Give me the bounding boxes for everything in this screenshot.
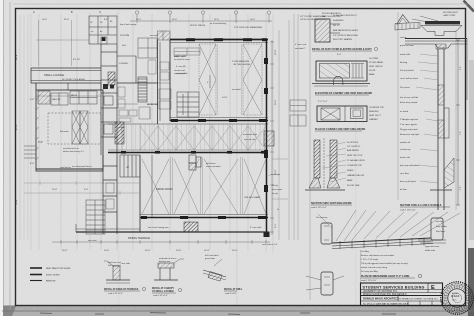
- svg-text:line of roof canopy: line of roof canopy: [120, 24, 136, 26]
- svg-text:16'-0": 16'-0": [136, 19, 141, 21]
- svg-text:2x: 2x: [277, 209, 279, 211]
- svg-text:NO WORK THIS AREA: NO WORK THIS AREA: [62, 78, 85, 81]
- right dimension strip of plan: [270, 40, 277, 235]
- svg-text:16'-0": 16'-0": [64, 19, 69, 21]
- svg-text:ELECTRIC HEATER: ELECTRIC HEATER: [333, 38, 353, 41]
- svg-text:DETAIL AT CANOPY: DETAIL AT CANOPY: [152, 287, 174, 290]
- svg-text:1/2" GYPROC: 1/2" GYPROC: [347, 146, 361, 148]
- svg-text:conc slab: conc slab: [121, 263, 131, 265]
- scattered leader notes on plan: [60, 22, 261, 229]
- small boxes right of plan: [290, 100, 306, 126]
- svg-text:WALK IN: WALK IN: [52, 98, 61, 101]
- svg-text:tile clg: tile clg: [272, 192, 278, 195]
- svg-text:ASB PAPER: ASB PAPER: [347, 149, 359, 152]
- svg-text:underside of stucco: underside of stucco: [159, 257, 177, 260]
- svg-text:40w lamp: 40w lamp: [436, 231, 446, 233]
- svg-text:TO BE REMOVED: TO BE REMOVED: [232, 61, 250, 63]
- connecting walls lounge->wing: [36, 83, 101, 90]
- extension line to title block: [360, 250, 362, 283]
- svg-text:FLASHING: FLASHING: [333, 19, 344, 22]
- svg-text:eggcrate louvre: eggcrate louvre: [425, 245, 440, 248]
- third bottom detail: [203, 254, 243, 295]
- wall column blobs: [171, 38, 268, 122]
- svg-text:conc walk at 1'-0": conc walk at 1'-0": [262, 243, 278, 246]
- svg-text:2'-2" 2'-4": 2'-2" 2'-4": [318, 101, 328, 103]
- svg-text:16'-0": 16'-0": [62, 250, 68, 252]
- svg-text:flashing over: flashing over: [159, 261, 171, 263]
- svg-text:fluoresc strip fixture cont ro: fluoresc strip fixture cont row outlets: [361, 254, 394, 257]
- terrace edge detail: [104, 261, 146, 295]
- architect seal: [441, 282, 473, 314]
- svg-text:3'-9": 3'-9": [38, 141, 43, 144]
- rails: [332, 238, 431, 243]
- svg-text:2x4 STUDS: 2x4 STUDS: [347, 142, 359, 144]
- top fixture row: [38, 91, 97, 105]
- svg-text:8'-0": 8'-0": [104, 19, 108, 21]
- svg-text:SC 1/8"=1'-0" DATE MAY 64 D: SC 1/8"=1'-0" DATE MAY 64 DRAWN GW JOB E: [363, 302, 409, 305]
- ticks: [340, 238, 424, 250]
- svg-text:DINING FLOOR PLAN FIN. 2N: DINING FLOOR PLAN FIN. 2ND DETAILS: [363, 293, 407, 296]
- svg-text:SHELVES: SHELVES: [369, 111, 379, 113]
- svg-text:22 GA GALV IRON: 22 GA GALV IRON: [347, 159, 365, 162]
- upper kitchen rooms (left of dining hall): [160, 40, 200, 122]
- svg-text:SMALL LOUNGE: SMALL LOUNGE: [44, 73, 64, 77]
- svg-text:16'-0": 16'-0": [176, 250, 182, 252]
- svg-text:gravel to beam: gravel to beam: [400, 44, 414, 47]
- svg-text:COUNTER TOP: COUNTER TOP: [369, 107, 385, 109]
- svg-text:scale 1 1/2"=1'-0": scale 1 1/2"=1'-0": [400, 210, 416, 212]
- svg-text:STOR RM: STOR RM: [120, 35, 130, 37]
- svg-text:6x6 posts: 6x6 posts: [60, 130, 69, 133]
- svg-text:12'-0": 12'-0": [275, 49, 277, 55]
- svg-text:scale 3"=1'-0": scale 3"=1'-0": [225, 293, 237, 295]
- top dimension string: [33, 11, 272, 23]
- svg-text:DETAIL AT SMLL: DETAIL AT SMLL: [224, 288, 243, 291]
- svg-text:WOOD TRUSS: WOOD TRUSS: [190, 25, 206, 27]
- svg-text:line of conc wall fdn: line of conc wall fdn: [400, 97, 419, 99]
- svg-text:ON THIS CEILING: ON THIS CEILING: [233, 64, 251, 66]
- svg-text:2x6 fascia brd: 2x6 fascia brd: [108, 265, 120, 267]
- svg-text:PLYWD PANEL: PLYWD PANEL: [369, 61, 384, 64]
- svg-text:over see det: over see det: [244, 138, 255, 141]
- svg-text:asbest cem trim screw fixing: asbest cem trim screw fixing: [361, 266, 388, 269]
- lockers cluster below band: [189, 155, 201, 170]
- svg-text:DONALD WAGG ARCHITECT: DONALD WAGG ARCHITECT: [363, 296, 399, 300]
- svg-text:TOP OF ROOF SHEATHING: TOP OF ROOF SHEATHING: [234, 26, 262, 29]
- lower dining hall: [140, 121, 270, 237]
- svg-text:REMOVE: REMOVE: [46, 281, 56, 283]
- svg-text:conc'l wall as found: conc'l wall as found: [400, 78, 419, 80]
- faint fold line: [236, 9, 238, 305]
- svg-text:16'-0": 16'-0": [42, 19, 47, 21]
- svg-text:14'-0": 14'-0": [222, 97, 228, 99]
- svg-text:9'-2": 9'-2": [460, 66, 462, 70]
- svg-text:stair exist: stair exist: [88, 239, 97, 242]
- svg-text:9'-8": 9'-8": [30, 99, 35, 101]
- svg-text:VENT DUCT: VENT DUCT: [369, 115, 382, 117]
- svg-text:counter: counter: [118, 126, 125, 129]
- svg-text:24'-0": 24'-0": [15, 124, 18, 130]
- svg-text:below keep sloped: below keep sloped: [400, 102, 418, 104]
- svg-text:scale 1 1/2"=1'-0": scale 1 1/2"=1'-0": [153, 295, 168, 297]
- svg-text:window sill: window sill: [400, 142, 410, 144]
- svg-text:1"air space gyproc: 1"air space gyproc: [400, 123, 417, 126]
- vent enclosure section: [305, 138, 365, 209]
- svg-text:no work this room: no work this room: [174, 58, 190, 61]
- lower lamp: [321, 272, 333, 295]
- cabinet plan: [315, 101, 385, 131]
- svg-text:mezz light: mezz light: [271, 173, 280, 176]
- svg-text:16'-0": 16'-0": [250, 19, 255, 21]
- column grid (light verticals): [20, 12, 273, 252]
- svg-text:1x4 TRIM: 1x4 TRIM: [369, 58, 378, 60]
- svg-text:new wall: new wall: [150, 35, 158, 37]
- svg-text:UNIVERSITY OF VICTORIA, B.: UNIVERSITY OF VICTORIA, B.C.: [363, 290, 398, 293]
- svg-text:scale 1 1/2"=1'-0": scale 1 1/2"=1'-0": [361, 280, 377, 282]
- svg-text:roof jst: roof jst: [400, 36, 407, 39]
- svg-text:4'-0": 4'-0": [337, 54, 341, 56]
- svg-text:16'-0": 16'-0": [275, 99, 277, 105]
- svg-text:22'-6": 22'-6": [52, 189, 58, 191]
- svg-text:4x10 roof rafter: 4x10 roof rafter: [205, 254, 219, 257]
- stairs: [177, 92, 199, 117]
- svg-text:E: E: [431, 285, 435, 291]
- svg-text:mtl lockers: mtl lockers: [206, 162, 216, 165]
- svg-text:base sq fin lbynd: base sq fin lbynd: [400, 181, 416, 183]
- bottom scan band: [0, 305, 474, 316]
- svg-text:DOOR: DOOR: [369, 70, 376, 72]
- svg-text:AT SMALL LOUNGE: AT SMALL LOUNGE: [152, 290, 174, 293]
- svg-text:DINING TERRACE: DINING TERRACE: [128, 236, 150, 240]
- kitchen extra fixtures: [117, 60, 170, 122]
- svg-text:EXIST WORK: EXIST WORK: [46, 275, 60, 277]
- svg-text:NO. 12: NO. 12: [333, 25, 340, 27]
- svg-text:remove partit: remove partit: [176, 72, 188, 75]
- svg-text:BASE: BASE: [369, 73, 375, 76]
- svg-text:7'-6": 7'-6": [460, 131, 462, 135]
- svg-text:6'-2 1/2": 6'-2 1/2": [73, 59, 81, 61]
- corridor duct hatch bar: [115, 122, 124, 144]
- svg-text:STUDENT SERVICES BUILDING: STUDENT SERVICES BUILDING: [363, 285, 425, 289]
- two narrow shelving strips: [72, 111, 88, 144]
- svg-text:CANT STRIP: CANT STRIP: [443, 14, 456, 17]
- svg-text:flashing: flashing: [400, 62, 408, 64]
- svg-text:B.C.: B.C.: [453, 300, 457, 302]
- svg-text:16'-0": 16'-0": [232, 250, 238, 252]
- legend: [30, 267, 71, 283]
- skylight strips with X: [199, 44, 262, 115]
- svg-text:flash here and: flash here and: [108, 262, 121, 264]
- left wing (kitchen west): [24, 90, 103, 171]
- svg-text:no ceiling work this rm: no ceiling work this rm: [72, 165, 92, 168]
- svg-text:16'-0": 16'-0": [145, 250, 151, 252]
- svg-text:W gyps and panels: W gyps and panels: [400, 129, 418, 131]
- svg-text:NEW PARTITION WORK: NEW PARTITION WORK: [46, 267, 71, 270]
- small room fixtures: [118, 87, 171, 119]
- svg-text:2x4 blkg: 2x4 blkg: [361, 251, 370, 253]
- title block: [361, 283, 443, 306]
- svg-text:DETAIL AT EDGE OF TERRACE: DETAIL AT EDGE OF TERRACE: [104, 288, 139, 291]
- svg-text:MECH: MECH: [71, 95, 77, 97]
- svg-text:base top and bottom: base top and bottom: [400, 164, 419, 167]
- svg-text:SECTION THRU A-C AND C-W WALLS: SECTION THRU A-C AND C-W WALLS: [400, 204, 442, 207]
- svg-text:4" conc curb: 4" conc curb: [295, 44, 307, 46]
- svg-text:BAKE SHOP: BAKE SHOP: [174, 55, 187, 58]
- svg-text:2"fiberglas rigid insl: 2"fiberglas rigid insl: [400, 118, 418, 121]
- svg-text:as found: as found: [400, 111, 409, 113]
- small detail below wall section: [418, 220, 447, 252]
- svg-text:ROOFING FELT: ROOFING FELT: [443, 12, 459, 14]
- svg-text:exist kitchen: exist kitchen: [60, 166, 71, 169]
- svg-text:scale 1 1/2"=1'-0": scale 1 1/2"=1'-0": [108, 293, 123, 295]
- svg-text:counter and: counter and: [174, 69, 185, 72]
- svg-text:PLAN OF MEZZANINE LIGHT 9: PLAN OF MEZZANINE LIGHT 9'-0" LONG: [361, 275, 410, 278]
- entry vestibule block top: [89, 16, 117, 44]
- svg-text:16'-0": 16'-0": [204, 250, 210, 252]
- svg-text:8'-0": 8'-0": [30, 163, 35, 165]
- svg-text:PLAN OF CABINET AND VENT ENCLO: PLAN OF CABINET AND VENT ENCLOSURE: [315, 128, 366, 131]
- duct over heater detail: [312, 14, 378, 51]
- svg-text:BASE: BASE: [347, 179, 353, 182]
- svg-text:7/8 sq mtl eggcrate louvre baf: 7/8 sq mtl eggcrate louvre baffled (see …: [361, 262, 409, 265]
- svg-text:see detail: see detail: [232, 88, 241, 91]
- svg-text:fluorescent strip light: fluorescent strip light: [400, 133, 419, 136]
- svg-text:LOUNGE: LOUNGE: [119, 63, 128, 65]
- svg-text:16'-0": 16'-0": [214, 19, 219, 21]
- texts right margin of plan: [262, 173, 283, 246]
- left notes: [400, 36, 438, 191]
- svg-text:R.A.I.C: R.A.I.C: [452, 295, 460, 298]
- separator verticals right of plan: [279, 12, 456, 300]
- svg-text:635 HUMBOLDT STREET, VICTORIA,: 635 HUMBOLDT STREET, VICTORIA, B.C.: [398, 297, 439, 300]
- left edge strip: [0, 0, 3, 316]
- svg-text:SHELF: SHELF: [347, 170, 354, 172]
- canopy detail: [152, 257, 184, 297]
- svg-text:VENT GRILLE: VENT GRILLE: [369, 66, 383, 68]
- svg-text:see detail 7: see detail 7: [295, 47, 306, 50]
- notes: [361, 251, 409, 273]
- svg-text:DETAIL OF DUCT OVER ELECTRIC H: DETAIL OF DUCT OVER ELECTRIC HEATER & DU…: [312, 48, 372, 51]
- cabinet elevation: [312, 54, 384, 95]
- svg-text:heater cab: heater cab: [400, 156, 411, 159]
- svg-text:16'-0": 16'-0": [104, 250, 110, 252]
- top dim tiny labels: [42, 19, 255, 21]
- svg-text:4" conc walk: 4" conc walk: [250, 227, 261, 229]
- small stair detail lower corridor: [86, 200, 105, 242]
- svg-text:baffle ends: baffle ends: [425, 250, 435, 252]
- small lounge band: [31, 68, 101, 90]
- corridor lower segment: [103, 155, 117, 234]
- svg-text:CABINET BELOW: CABINET BELOW: [347, 174, 364, 177]
- svg-text:kitchen and servery 1:1: kitchen and servery 1:1: [63, 150, 85, 153]
- left dimension texts: [15, 54, 35, 205]
- office boxes top: [138, 31, 170, 58]
- svg-text:ARCHT: ARCHT: [452, 292, 459, 295]
- misc left leaders: [36, 20, 89, 66]
- leader fan: [318, 210, 460, 241]
- svg-text:line of roof canopy over: line of roof canopy over: [148, 227, 169, 229]
- stair ladder dark cluster: [138, 77, 147, 102]
- svg-text:counter top: counter top: [400, 148, 411, 151]
- svg-text:mtl clips: mtl clips: [436, 220, 444, 223]
- svg-text:UP: UP: [126, 167, 130, 169]
- svg-text:scale 1 1/2"=1'-0": scale 1 1/2"=1'-0": [311, 207, 327, 209]
- svg-text:3'-0": 3'-0": [460, 186, 462, 190]
- terrace edge line: [76, 222, 268, 240]
- wall hatch ticks left: [36, 97, 39, 160]
- svg-text:9'-0": 9'-0": [275, 223, 277, 228]
- svg-text:fin floor: fin floor: [400, 188, 407, 191]
- wall section far right: [400, 36, 467, 212]
- svg-text:new acoust: new acoust: [272, 188, 283, 191]
- svg-text:2x4 cont top: 2x4 cont top: [316, 216, 328, 219]
- svg-text:16'-0": 16'-0": [172, 19, 177, 21]
- note text top middle: [190, 12, 341, 29]
- bottom dimension string: [52, 240, 270, 252]
- svg-text:22 GA GALV IRON DUCT: 22 GA GALV IRON DUCT: [333, 14, 358, 17]
- svg-text:gravel stop: gravel stop: [205, 257, 216, 260]
- dimension line: [457, 40, 459, 205]
- svg-text:DINING ROOM: DINING ROOM: [156, 188, 172, 191]
- svg-text:R-in panel: R-in panel: [400, 87, 410, 89]
- stair block lower: [120, 155, 140, 177]
- svg-text:2x6 pl and bolt: 2x6 pl and bolt: [400, 69, 414, 72]
- svg-text:WORK RM: WORK RM: [147, 104, 158, 106]
- svg-text:VENT DUCT UP: VENT DUCT UP: [347, 155, 363, 157]
- svg-text:4" conc blk: 4" conc blk: [176, 66, 186, 68]
- svg-text:conc floor: conc floor: [400, 172, 409, 175]
- svg-text:1 1/2 x 1 1/2 angle: 1 1/2 x 1 1/2 angle: [361, 259, 379, 261]
- left area dimension lines: [24, 181, 140, 195]
- svg-text:ELEVATION OF CABINET AND VENT: ELEVATION OF CABINET AND VENT ENCLOSURE: [315, 92, 372, 95]
- svg-text:32'-6": 32'-6": [15, 54, 18, 60]
- svg-text:tar of roof decking: tar of roof decking: [210, 22, 226, 25]
- svg-text:mezzanine light: mezzanine light: [243, 133, 257, 136]
- svg-text:9'6 clg: 9'6 clg: [272, 185, 278, 187]
- right wall hatch column: [264, 131, 274, 146]
- svg-text:1/2" GYPROC EACH SIDE: 1/2" GYPROC EACH SIDE: [333, 34, 359, 37]
- corridor / stair shaft column: [101, 35, 130, 155]
- left entry steps: [24, 146, 36, 158]
- right edge smudge: [468, 248, 474, 316]
- roof detail top right: [395, 12, 462, 35]
- svg-text:COUNTER TOP: COUNTER TOP: [347, 165, 363, 167]
- dashed roof rect: [48, 113, 101, 144]
- svg-text:dn: dn: [100, 31, 102, 33]
- svg-text:SECTION THRU VENT ENCLOSURE: SECTION THRU VENT ENCLOSURE: [311, 202, 352, 205]
- svg-text:new floor finish to: new floor finish to: [63, 147, 79, 150]
- svg-text:recess mounted: recess mounted: [206, 165, 220, 168]
- svg-text:CABINET: CABINET: [369, 118, 379, 121]
- svg-text:ASB PAPER BOTH SIDES: ASB PAPER BOTH SIDES: [333, 29, 358, 32]
- mezzanine light plan: [306, 210, 460, 295]
- svg-text:40'-0": 40'-0": [15, 199, 18, 205]
- svg-text:wood soffit: wood soffit: [400, 53, 410, 56]
- middle bay band: [108, 124, 268, 154]
- svg-text:9'-0": 9'-0": [84, 189, 88, 191]
- svg-text:FLOOR LINE: FLOOR LINE: [347, 185, 360, 187]
- kitchen middle block: [36, 31, 171, 124]
- upper dining hall: [170, 38, 268, 122]
- svg-text:CEILING SHAFT: CEILING SHAFT: [244, 196, 261, 199]
- corner smudge top right: [464, 1, 474, 12]
- svg-text:C: C: [99, 11, 101, 14]
- svg-text:lamp holder: lamp holder: [436, 225, 447, 228]
- svg-text:2x4 susp and blkg: 2x4 susp and blkg: [361, 271, 379, 273]
